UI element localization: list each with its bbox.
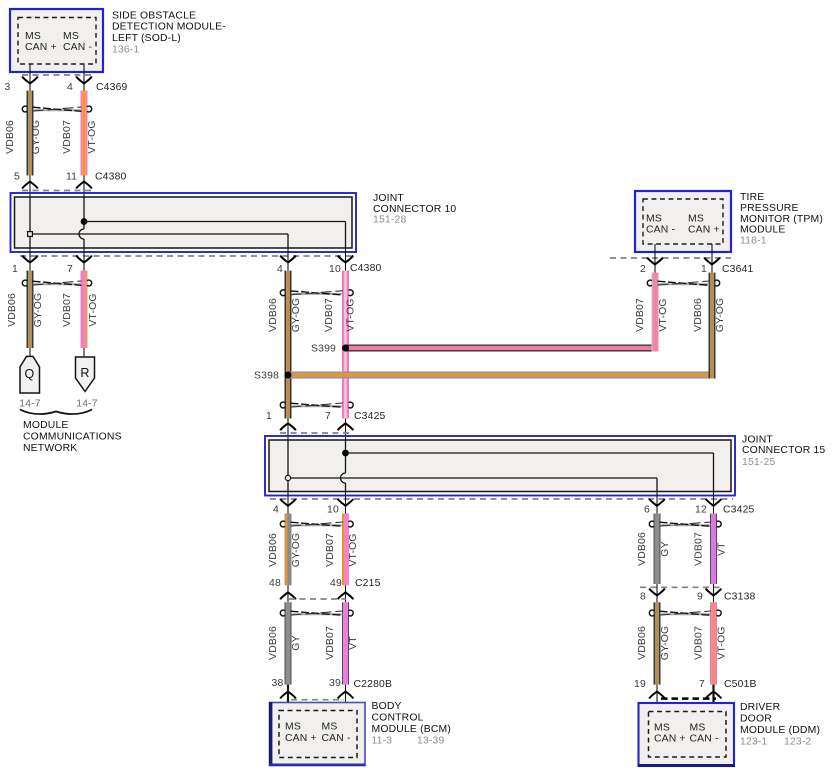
arrow down JC15 pin10 (338, 499, 354, 506)
wire lead C3425 pin7 into JC15 (345, 419, 347, 441)
label SOD-L module name (112, 10, 226, 55)
JC10 internal junction dot (81, 218, 88, 225)
svg-text:GY: GY (291, 635, 302, 650)
svg-text:12: 12 (695, 505, 707, 516)
label JOINT CONNECTOR 15 (742, 435, 825, 468)
arrow up C501B pin19 (649, 692, 665, 699)
wire label VDB06 (BCM lower) (268, 626, 279, 660)
svg-text:19: 19 (634, 679, 646, 690)
twisted pair symbol (DDM lower pair) (649, 610, 721, 616)
twisted pair symbol (mid pair upper) (280, 290, 353, 296)
svg-text:VDB06: VDB06 (268, 298, 279, 332)
svg-text:2: 2 (640, 264, 646, 275)
arrow down JC10 pin7 (76, 256, 92, 263)
wire lead JC10 pin1 (29, 248, 31, 271)
svg-text:DETECTION MODULE-: DETECTION MODULE- (112, 22, 226, 33)
wire label GY (BCM lower) (291, 635, 302, 650)
module BCM pin MS CAN + label (285, 722, 317, 745)
svg-text:CAN +: CAN + (688, 225, 720, 236)
arrow up C3425 pin7 (338, 423, 354, 430)
wire label VDB07 (B) (62, 293, 73, 327)
pin 7 label (C3425 upper) (325, 411, 331, 422)
svg-text:C501B: C501B (724, 679, 757, 690)
svg-text:CONNECTOR 15: CONNECTOR 15 (742, 445, 825, 456)
connector C501B dashed line (bold) (661, 697, 716, 700)
module SOD-L pin MS CAN - label (63, 31, 92, 53)
pin 9 label (697, 592, 703, 603)
joint connector 15 box (265, 436, 735, 496)
arrow up C215 pin48 (280, 592, 296, 599)
wire lead pin5 into JC10 (29, 176, 31, 198)
wire label GY-OG (BCM upper) (291, 533, 302, 568)
module DDM pin MS CAN + label (654, 723, 686, 745)
svg-text:151-28: 151-28 (373, 214, 406, 225)
wire label VDB06 (DDM lower) (637, 626, 648, 660)
label BCM module name (372, 701, 452, 747)
svg-text:49: 49 (330, 578, 342, 589)
JC10 internal bus GY horizontal (32, 234, 288, 248)
svg-text:GY-OG: GY-OG (291, 298, 302, 333)
wire lead SOD-L pin3 to C4369 (29, 64, 31, 91)
label MODULE COMMUNICATIONS NETWORK (23, 420, 122, 454)
svg-text:MS: MS (63, 31, 79, 42)
connector dashed line below JC10 (20, 255, 356, 257)
svg-text:136-1: 136-1 (112, 44, 140, 55)
wire VDB06 GY-OG (C3138 pin8 to DDM pin19) (654, 602, 661, 684)
wire VDB07 VT-OG (JC10 pin10 to C3425 pin7) (342, 271, 349, 419)
svg-text:MONITOR (TPM): MONITOR (TPM) (740, 214, 823, 225)
JC15 internal wire pin7 vertical (341, 440, 346, 492)
svg-text:DOOR: DOOR (740, 714, 772, 725)
svg-text:CAN -: CAN - (322, 733, 351, 744)
svg-text:JOINT: JOINT (373, 193, 404, 204)
svg-text:C3425: C3425 (354, 411, 386, 422)
svg-text:6: 6 (644, 505, 650, 516)
arrow up C215 pin49 (338, 592, 354, 599)
svg-text:MODULE (DDM): MODULE (DDM) (740, 725, 820, 736)
pin 2 label (TPM) (640, 264, 646, 275)
arrow down TPM pin2 (647, 258, 663, 265)
svg-text:1: 1 (701, 264, 707, 275)
svg-text:118-1: 118-1 (740, 235, 767, 246)
svg-text:DRIVER: DRIVER (740, 702, 781, 713)
svg-text:VDB07: VDB07 (324, 298, 335, 332)
svg-text:3: 3 (5, 82, 11, 93)
wire lead JC10 pin7 (83, 248, 85, 271)
wire label VT-OG (BCM upper) (348, 533, 359, 566)
wire label VT-OG (87, 120, 98, 153)
svg-text:123-2: 123-2 (784, 737, 812, 748)
svg-text:VDB07: VDB07 (694, 532, 705, 566)
svg-text:11-3: 11-3 (372, 736, 393, 747)
pin 1 label (C3425 upper) (266, 411, 272, 422)
JC10 internal wire pin5 vertical (29, 197, 31, 232)
svg-text:7: 7 (699, 679, 705, 690)
svg-text:10: 10 (329, 264, 341, 275)
svg-text:VT-OG: VT-OG (346, 298, 357, 331)
svg-text:C3641: C3641 (722, 264, 754, 275)
svg-text:1: 1 (266, 411, 272, 422)
wire lead BCM pin38 (bold) (287, 685, 289, 711)
svg-text:MS: MS (690, 723, 706, 734)
wire lead C215 pin49 (345, 585, 347, 602)
svg-text:GY-OG: GY-OG (291, 533, 302, 568)
svg-text:CAN -: CAN - (690, 734, 719, 745)
pin 4 label (JC10) (277, 264, 283, 275)
JC15 internal bus GY horizontal (291, 478, 657, 492)
wire label VT-OG (TPM) (658, 298, 669, 331)
wire label VDB07 (BCM upper) (325, 533, 336, 567)
JC15 internal wire below node to pin 4 (287, 481, 289, 492)
arrow down TPM pin1 (704, 258, 720, 265)
svg-text:VDB07: VDB07 (62, 120, 73, 154)
arrow down JC15 pin6 (649, 499, 665, 506)
svg-text:C215: C215 (355, 578, 381, 589)
connector C501B label (724, 679, 757, 690)
arrow up at pin 11 (76, 182, 92, 189)
connector C4380 dashed line (upper) (22, 190, 93, 192)
connector C4369 label (96, 82, 128, 93)
svg-text:VT-OG: VT-OG (348, 533, 359, 566)
svg-text:GY-OG: GY-OG (715, 298, 726, 333)
wire lead JC10 pin10 (345, 248, 347, 271)
svg-text:S399: S399 (311, 344, 336, 355)
svg-text:GY-OG: GY-OG (31, 120, 42, 155)
svg-text:VDB07: VDB07 (325, 626, 336, 660)
wire label VT-OG (mid) (346, 298, 357, 331)
svg-text:COMMUNICATIONS: COMMUNICATIONS (23, 432, 122, 443)
wire label GY-OG (TPM) (715, 298, 726, 333)
svg-text:VT: VT (348, 636, 359, 650)
JC15 internal bus VT horizontal (346, 453, 714, 492)
svg-text:VDB06: VDB06 (637, 532, 648, 566)
pin 7 label (C501B) (699, 679, 705, 690)
wire S399 splice horizontal VT-OG to TPM (346, 345, 659, 352)
svg-text:VDB07: VDB07 (325, 533, 336, 567)
svg-text:GY-OG: GY-OG (33, 293, 44, 328)
JC10 internal wire below node to pin 1 (29, 236, 31, 248)
wire label VT-OG (B) (88, 293, 99, 326)
pin 7 label (JC10) (67, 264, 73, 275)
svg-text:1: 1 (12, 264, 18, 275)
svg-text:SIDE OBSTACLE: SIDE OBSTACLE (112, 10, 196, 21)
svg-text:CONTROL: CONTROL (372, 713, 424, 724)
wire VDB07 VT-OG (TPM pin2 vertical) (652, 273, 659, 352)
svg-text:MS: MS (688, 214, 704, 225)
svg-text:VDB06: VDB06 (637, 626, 648, 660)
wire lead JC15 pin12 (713, 492, 715, 514)
module SOD-L pin MS CAN + label (25, 31, 57, 53)
module DDM pin MS CAN - label (690, 723, 719, 745)
node S399 label (311, 344, 336, 355)
twisted pair symbol (Q/R pair) (22, 280, 91, 286)
svg-text:151-25: 151-25 (742, 457, 775, 468)
connector C3425 dashed line (upper) (280, 432, 353, 434)
pin 49 label (330, 578, 342, 589)
JC10 internal bus VT horizontal (84, 222, 346, 249)
wire lead TPM pin1 (711, 244, 713, 273)
module BCM pin MS CAN - label (322, 722, 351, 745)
svg-text:4: 4 (273, 505, 279, 516)
wire label VT-OG (DDM lower) (717, 626, 728, 659)
arrow up C501B pin7 (706, 692, 722, 699)
wire label GY-OG (B) (33, 293, 44, 328)
svg-text:123-1: 123-1 (740, 737, 768, 748)
arrow up C3425 pin1 (280, 423, 296, 430)
wire label VDB06 (5, 120, 16, 154)
svg-text:LEFT (SOD-L): LEFT (SOD-L) (112, 33, 181, 44)
wire VDB06 GY-OG (pin1 to terminal Q) (27, 271, 34, 348)
arrow down JC15 pin12 (706, 499, 722, 506)
wire lead JC15 pin4 (287, 492, 289, 514)
node S398 label (254, 371, 279, 382)
pin 19 label (634, 679, 646, 690)
svg-text:MS: MS (25, 31, 41, 42)
svg-text:5: 5 (14, 172, 20, 183)
svg-text:C3138: C3138 (724, 592, 756, 603)
svg-text:VDB06: VDB06 (268, 626, 279, 660)
wire lead DDM pin19 (656, 685, 658, 712)
arrow down C3138 pin9 (706, 589, 722, 596)
wire label VDB07 (mid) (324, 298, 335, 332)
svg-text:Q: Q (25, 367, 35, 381)
wire lead to terminal Q (29, 348, 31, 357)
pin 48 label (269, 578, 281, 589)
connector C4380 label (upper) (95, 172, 127, 183)
connector dashed line below JC15 (270, 498, 733, 500)
wire lead DDM pin7 (bold) (712, 685, 714, 712)
JC15 internal wire pin1 vertical (287, 440, 289, 475)
pin 1 label (JC10) (12, 264, 18, 275)
wire lead TPM pin2 (654, 244, 656, 273)
svg-text:CAN -: CAN - (63, 42, 92, 53)
pin 38 label (272, 678, 284, 689)
JC15 internal junction dot (342, 450, 349, 457)
connector C3641 label (722, 264, 754, 275)
arrow down C3138 pin8 (649, 589, 665, 596)
connector C4380 label (lower) (350, 263, 382, 274)
svg-text:CAN +: CAN + (285, 733, 317, 744)
wire label GY-OG (mid) (291, 298, 302, 333)
module BCM (Body Control Module) box (269, 702, 366, 766)
wire label GY-OG (DDM lower) (660, 626, 671, 661)
svg-text:VT: VT (717, 542, 728, 556)
twisted pair symbol (BCM lower pair) (280, 610, 353, 616)
module TPM pin MS CAN - label (646, 214, 675, 236)
module DDM (Driver Door Module) box (638, 703, 735, 767)
wire lead C3138 pin8 (656, 584, 658, 602)
arrow down at pin 4 (76, 77, 92, 84)
wire lead JC15 pin6 (656, 492, 658, 514)
JC15 internal terminal node (circle) (285, 475, 290, 480)
module TPM (Tire Pressure Monitor) box (635, 191, 731, 252)
svg-text:VDB06: VDB06 (268, 533, 279, 567)
svg-text:38: 38 (272, 678, 284, 689)
svg-text:C4380: C4380 (95, 172, 127, 183)
wire lead C3138 pin9 (713, 584, 715, 602)
connector C3138 dashed line (640, 586, 722, 588)
connector C215 label (355, 578, 381, 589)
connector C2280B label (354, 679, 393, 690)
svg-text:BODY: BODY (372, 701, 402, 712)
svg-text:C4380: C4380 (350, 263, 382, 274)
svg-text:VDB07: VDB07 (694, 626, 705, 660)
pin 12 label (JC15) (695, 505, 707, 516)
svg-text:MODULE: MODULE (740, 225, 786, 236)
svg-text:GY-OG: GY-OG (660, 626, 671, 661)
connector C2280B dashed line (291, 699, 344, 701)
wire label VDB06 (BCM upper) (268, 533, 279, 567)
wire VDB06 GY (C215 pin48 to BCM pin38) (285, 602, 292, 684)
svg-text:13-39: 13-39 (417, 736, 445, 747)
svg-text:TIRE: TIRE (740, 192, 764, 203)
svg-text:39: 39 (329, 678, 341, 689)
svg-text:NETWORK: NETWORK (23, 443, 77, 454)
svg-text:MODULE (BCM): MODULE (BCM) (372, 724, 452, 735)
svg-text:4: 4 (67, 82, 73, 93)
wire lead to terminal R (83, 348, 85, 358)
svg-text:C3425: C3425 (723, 505, 755, 516)
svg-text:PRESSURE: PRESSURE (740, 203, 799, 214)
connector C3138 label (724, 592, 756, 603)
connector C3425 label (upper) (354, 411, 386, 422)
splice node S398 (285, 372, 292, 379)
wire lead JC15 pin10 (345, 492, 347, 514)
svg-text:CONNECTOR 10: CONNECTOR 10 (373, 204, 456, 215)
svg-text:10: 10 (327, 505, 339, 516)
brace under terminals (20, 410, 92, 415)
pin 8 label (640, 592, 646, 603)
pin 3 label (5, 82, 11, 93)
svg-text:VT-OG: VT-OG (87, 120, 98, 153)
terminal R symbol (76, 357, 95, 392)
wire lead SOD-L pin4 to C4369 (83, 64, 85, 91)
pin 4 label (JC15) (273, 505, 279, 516)
twisted pair symbol (TPM pair) (647, 280, 719, 286)
wire VDB07 VT (JC15 pin12 to C3138 pin9) (710, 514, 717, 585)
svg-text:MODULE: MODULE (23, 420, 69, 431)
svg-text:48: 48 (269, 578, 281, 589)
wire VDB07 VT-OG (pin7 to terminal R) (81, 271, 88, 348)
svg-text:VDB06: VDB06 (693, 298, 704, 332)
wire label VDB06 (TPM) (693, 298, 704, 332)
svg-text:14-7: 14-7 (76, 399, 98, 410)
wire lead pin11 into JC10 (83, 176, 85, 198)
svg-text:GY: GY (660, 541, 671, 556)
svg-text:MS: MS (654, 723, 670, 734)
wire lead JC10 pin4 (287, 248, 289, 271)
arrow down JC10 pin4 (280, 256, 296, 263)
wire VDB06 GY-OG (TPM pin1 vertical) (709, 273, 716, 379)
arrow down JC15 pin4 (280, 499, 296, 506)
terminal Q pin 14-7 label (19, 399, 41, 410)
pin 4 label (67, 82, 73, 93)
svg-text:MS: MS (322, 722, 338, 733)
svg-text:VT-OG: VT-OG (717, 626, 728, 659)
connector C4369 dashed line (22, 74, 93, 76)
arrow up C2280B pin39 (338, 692, 354, 699)
wire VDB07 VT-OG (C3138 pin9 to DDM pin7) (710, 602, 717, 684)
module TPM pin MS CAN + label (688, 214, 720, 236)
wire lead C3425 pin1 into JC15 (287, 419, 289, 441)
wire label VT (DDM upper) (717, 542, 728, 556)
connector C215 dashed line (289, 598, 346, 600)
svg-text:VDB06: VDB06 (7, 293, 18, 327)
arrow down JC10 pin1 (22, 256, 38, 263)
pin 10 label (JC15) (327, 505, 339, 516)
arrow up C2280B pin38 (280, 692, 296, 699)
svg-text:C2280B: C2280B (354, 679, 393, 690)
terminal R pin 14-7 label (76, 399, 98, 410)
svg-text:VT-OG: VT-OG (88, 293, 99, 326)
svg-text:MS: MS (285, 722, 301, 733)
svg-text:VT-OG: VT-OG (658, 298, 669, 331)
twisted pair symbol (DDM upper pair) (649, 521, 721, 527)
wire VDB07 VT (C215 pin49 to BCM pin39) (342, 602, 349, 684)
connector C3641 dashed line (610, 257, 731, 259)
joint connector 10 box (11, 193, 357, 252)
svg-text:VDB06: VDB06 (5, 120, 16, 154)
wire label VDB07 (DDM upper) (694, 532, 705, 566)
pin 11 label (66, 172, 77, 183)
svg-text:CAN +: CAN + (25, 42, 57, 53)
svg-text:VDB07: VDB07 (62, 293, 73, 327)
pin 39 label (329, 678, 341, 689)
svg-text:MS: MS (646, 214, 662, 225)
svg-text:8: 8 (640, 592, 646, 603)
label JOINT CONNECTOR 10 (373, 193, 456, 225)
svg-text:7: 7 (325, 411, 331, 422)
terminal Q symbol (20, 356, 40, 393)
svg-text:C4369: C4369 (96, 82, 128, 93)
wire label GY (DDM upper) (660, 541, 671, 556)
svg-text:7: 7 (67, 264, 73, 275)
svg-text:4: 4 (277, 264, 283, 275)
wire lead BCM pin39 (345, 685, 347, 711)
twisted pair symbol (C4369 pair) (22, 106, 91, 112)
svg-text:S398: S398 (254, 371, 279, 382)
svg-text:11: 11 (66, 172, 77, 183)
arrow down at pin 3 (22, 77, 38, 84)
svg-text:9: 9 (697, 592, 703, 603)
pin 10 label (JC10) (329, 264, 341, 275)
wire VDB07 VT-OG (pin4 to pin11) (81, 91, 88, 176)
wire VDB06 GY-OG (JC10 pin4 to C3425 pin1) (285, 271, 292, 419)
wire label VDB06 (B) (7, 293, 18, 327)
wire S398 splice horizontal GY-OG to TPM (288, 372, 716, 379)
twisted pair symbol (BCM upper pair) (280, 521, 353, 527)
wire label VDB06 (mid) (268, 298, 279, 332)
wire VDB06 GY-OG (pin3 to pin5) (27, 91, 34, 176)
pin 1 label (TPM) (701, 264, 707, 275)
wire label VDB07 (DDM lower) (694, 626, 705, 660)
label TPM module name (740, 192, 823, 246)
twisted pair symbol (mid pair lower) (280, 402, 353, 408)
wire label VDB07 (TPM) (635, 298, 646, 332)
svg-text:R: R (80, 366, 89, 380)
svg-text:JOINT: JOINT (742, 435, 773, 446)
wire label VDB06 (DDM upper) (637, 532, 648, 566)
arrow up at pin 5 (22, 182, 38, 189)
JC10 internal wire pin11 vertical (79, 197, 84, 248)
svg-text:CAN +: CAN + (654, 734, 686, 745)
wire VDB07 VT-OG (JC15 pin10 to C215 pin49) (342, 514, 349, 586)
module SOD-L (Side Obstacle Detection Module-Left) box (10, 9, 103, 72)
pin 6 label (JC15) (644, 505, 650, 516)
wire label VDB07 (BCM lower) (325, 626, 336, 660)
arrow down JC10 pin10 (338, 256, 354, 263)
wire label VT (BCM lower) (348, 636, 359, 650)
